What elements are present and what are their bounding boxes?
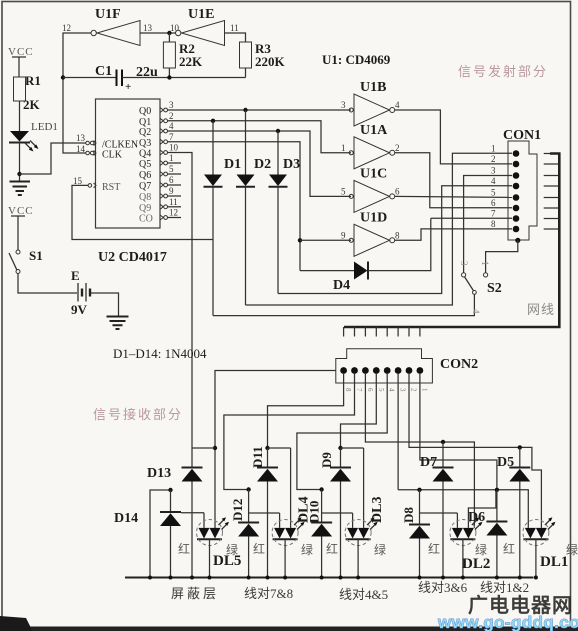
pin Q9 (11)	[139, 197, 181, 214]
svg-text:1: 1	[169, 153, 174, 163]
CON1 pin 3 dot	[513, 172, 520, 179]
junction dot on common bus	[518, 576, 522, 580]
svg-text:屏蔽层: 屏蔽层	[171, 586, 219, 601]
inverter U1D	[349, 224, 395, 256]
cable conductor tick above CON2	[408, 327, 410, 337]
svg-text:D6: D6	[468, 510, 485, 525]
svg-text:2: 2	[410, 388, 418, 392]
CON1 pin 5 cable tick	[544, 197, 560, 199]
svg-text:D13: D13	[147, 466, 171, 481]
svg-text:4: 4	[388, 388, 396, 392]
svg-text:4: 4	[169, 121, 174, 131]
connector CON2 body	[336, 349, 433, 383]
CON1 pin 4 dot	[513, 183, 520, 190]
wire D14 loop left	[150, 490, 171, 578]
wire D9 branch to DL3 right	[341, 448, 364, 528]
wire U1B output to CON1 pin2	[395, 110, 512, 164]
wire D10 to DL3 left	[322, 513, 353, 528]
svg-text:DL2: DL2	[462, 556, 490, 572]
svg-text:D5: D5	[497, 455, 514, 470]
junction dot on common bus	[441, 576, 445, 580]
inverter U1B	[349, 94, 395, 126]
svg-text:DL5: DL5	[213, 553, 241, 569]
CON2 pin 7 dot	[351, 367, 358, 374]
junction dot on common bus	[320, 576, 324, 580]
junction dot R2 top	[167, 31, 171, 35]
CON1 pin 7 dot	[513, 215, 520, 222]
cable conductor tick above CON2	[354, 327, 356, 337]
svg-text:6: 6	[169, 175, 174, 185]
wire CON2 shield to DL5 group	[215, 371, 336, 531]
junction dot on common bus	[266, 576, 270, 580]
wire D3 riser to CON1 pin4	[278, 186, 512, 294]
svg-text:2: 2	[395, 143, 400, 153]
svg-text:Q0: Q0	[139, 106, 151, 117]
svg-text:5: 5	[341, 186, 346, 196]
svg-text:RST: RST	[102, 182, 120, 193]
pin Q2 (4)	[139, 121, 174, 138]
inverter U1C	[349, 180, 395, 212]
CON1 pin 2 cable tick	[544, 163, 560, 165]
svg-text:10: 10	[170, 23, 180, 33]
svg-text:3: 3	[491, 166, 496, 176]
svg-text:U1E: U1E	[188, 7, 214, 22]
junction dot Q3 column / U1D input	[298, 238, 302, 242]
pin Q3 (7)	[139, 132, 174, 149]
svg-text:绿: 绿	[374, 542, 386, 557]
junction dot shield branch	[213, 446, 217, 450]
wire CON2 pin1 to DL1 row	[420, 373, 497, 490]
wire RST routing under U2	[72, 185, 213, 239]
junction dot on common bus	[247, 576, 251, 580]
svg-text:Q7: Q7	[139, 181, 151, 192]
CON1 shield pin dot	[515, 238, 520, 243]
junction dot D12 top	[246, 487, 250, 491]
junction dot on common bus	[356, 576, 360, 580]
VCC rail 1	[8, 46, 34, 77]
wire CON2 pin3 to DL2 row	[397, 373, 399, 490]
svg-text:D2: D2	[254, 157, 271, 172]
svg-text:3: 3	[459, 261, 469, 266]
junction dot C1 left / U1F output column	[61, 75, 65, 79]
svg-text:红: 红	[178, 541, 190, 556]
wire Q2 row to U1C input	[168, 131, 352, 196]
resistor R1	[14, 77, 26, 101]
svg-text:U1: CD4069: U1: CD4069	[322, 52, 391, 67]
svg-text:Q2: Q2	[139, 127, 151, 138]
svg-text:CON1: CON1	[503, 128, 541, 143]
pin Q6 (5)	[139, 164, 181, 181]
wire D1 row to S2 pole	[213, 295, 474, 316]
svg-text:红: 红	[326, 541, 338, 556]
wire C1 left	[63, 77, 116, 79]
junction dot LED1/ground	[17, 172, 21, 176]
svg-text:Q4: Q4	[139, 149, 151, 160]
svg-text:CON2: CON2	[440, 357, 478, 372]
svg-text:U1B: U1B	[360, 80, 386, 95]
svg-text:D11: D11	[250, 446, 265, 468]
CON1 pin 8 cable tick	[544, 228, 560, 230]
wire D12 to DL4 left	[249, 513, 280, 528]
svg-text:11: 11	[230, 23, 239, 33]
svg-text:R1: R1	[25, 73, 41, 88]
cable conductor tick above CON2	[343, 327, 345, 337]
wire U1E input to R3	[225, 33, 246, 42]
svg-text:线对3&6: 线对3&6	[418, 580, 468, 595]
svg-text:S1: S1	[29, 248, 43, 263]
svg-text:12: 12	[62, 23, 71, 33]
diode D6	[486, 490, 507, 578]
svg-text:4: 4	[395, 100, 400, 110]
svg-text:15: 15	[73, 176, 83, 186]
CON2 pin 4 dot	[384, 367, 391, 374]
junction dot D8 top	[417, 488, 421, 492]
CON1 pin 6 dot	[513, 205, 520, 212]
junction dot on common bus	[208, 576, 212, 580]
svg-text:LED1: LED1	[31, 121, 58, 133]
svg-text:1: 1	[420, 388, 428, 392]
junction dot on common bus	[534, 576, 538, 580]
cable conductor tick above CON2	[397, 327, 399, 337]
svg-text:DL3: DL3	[370, 497, 385, 523]
junction dot on common bus	[148, 576, 152, 580]
CON2 pin 8 dot	[340, 367, 347, 374]
dual LED DL3	[345, 517, 378, 577]
wire U1F output to CLK column	[63, 33, 91, 153]
svg-text:2: 2	[491, 154, 496, 164]
svg-text:网线: 网线	[527, 302, 555, 317]
svg-text:D14: D14	[114, 511, 138, 526]
inverter U1F	[91, 21, 140, 46]
bottom border bar	[0, 627, 578, 631]
ground symbol 2	[107, 317, 129, 330]
diode D12	[238, 490, 259, 578]
svg-text:1: 1	[480, 261, 490, 266]
junction dot on common bus	[190, 576, 194, 580]
wire D11 branch to DL4 right	[268, 448, 291, 528]
wire battery to ground 2	[91, 293, 119, 316]
svg-text:Q8: Q8	[139, 192, 151, 203]
diode D5	[509, 447, 530, 577]
svg-text:VCC: VCC	[8, 46, 34, 58]
junction dot on common bus	[418, 576, 422, 580]
wire LED1 to ground node	[19, 143, 21, 182]
svg-text:7: 7	[355, 388, 363, 392]
svg-text:12: 12	[169, 208, 178, 218]
junction dot on common bus	[461, 576, 465, 580]
wire CON2 pin5 to D9	[341, 373, 377, 448]
svg-text:线对4&5: 线对4&5	[339, 587, 388, 602]
pin Q1 (2)	[139, 111, 174, 128]
CON2 pin 5 dot	[373, 367, 380, 374]
network cable line	[344, 154, 559, 328]
diode D7	[433, 442, 454, 578]
junction dot Q0/D2	[243, 108, 247, 112]
svg-text:红: 红	[428, 541, 440, 556]
wire Q1 row to U1A input	[168, 121, 352, 153]
wire R1 to LED1	[19, 101, 21, 131]
svg-text:U1D: U1D	[360, 210, 387, 225]
CON1 pin 1 dot	[513, 150, 520, 157]
ground symbol 1	[10, 182, 31, 196]
wire U1F input to U1E output	[140, 32, 176, 34]
wire ground node to /CLKEN pin13	[20, 143, 86, 174]
CON1 pin 4 cable tick	[544, 185, 560, 187]
CON2 pin 6 dot	[362, 367, 369, 374]
junction dot D10 top	[319, 487, 323, 491]
wire U1C output to CON1 pin5	[395, 196, 512, 197]
wire CON2 pin7 to D12	[224, 373, 355, 490]
svg-text:U1A: U1A	[360, 123, 388, 138]
wire VCC2 to S1	[11, 216, 25, 250]
junction dot D11 branch	[265, 446, 269, 450]
dual LED DL4	[272, 517, 305, 577]
cable conductor tick above CON2	[386, 327, 388, 337]
svg-text:3: 3	[399, 388, 407, 392]
svg-text:10: 10	[169, 143, 179, 153]
svg-text:D3: D3	[283, 157, 300, 172]
svg-text:D10: D10	[307, 501, 322, 523]
svg-text:5: 5	[377, 388, 385, 392]
svg-text:9: 9	[341, 230, 346, 240]
cable conductor tick above CON2	[364, 327, 366, 337]
CON1 pin 5 dot	[513, 194, 520, 201]
pin RST (15)	[73, 176, 120, 193]
cable conductor tick above CON2	[375, 327, 377, 337]
svg-text:D8: D8	[401, 507, 416, 523]
dual LED DL5	[197, 517, 230, 577]
svg-text:7: 7	[169, 132, 174, 142]
wire U1A output to CON1 pin6	[395, 153, 512, 208]
wire D14 to DL5 left	[181, 513, 204, 528]
cable conductor tick above CON2	[419, 327, 421, 337]
pin CO (12)	[139, 208, 181, 225]
wire CON1 shield to S2 contact	[486, 240, 518, 272]
CON2 pin 1 dot	[417, 367, 424, 374]
diode D14	[160, 490, 181, 578]
junction dot on common bus	[169, 576, 173, 580]
wire shield branch to D13 column	[192, 447, 215, 449]
wire C1 right to R2/R3 bottoms	[122, 68, 246, 78]
svg-text:2K: 2K	[23, 97, 41, 112]
svg-text:13: 13	[76, 133, 86, 143]
svg-text:红: 红	[253, 541, 265, 556]
junction dot Q2/D3	[276, 129, 280, 133]
svg-text:VCC: VCC	[8, 205, 34, 217]
svg-text:3: 3	[341, 100, 346, 110]
svg-text:6: 6	[395, 186, 400, 196]
CON2 pin 2 dot	[406, 367, 413, 374]
wire CON2 pin8 to D11	[268, 373, 344, 448]
wire Q3 column to U1D input	[300, 239, 351, 241]
svg-text:U1C: U1C	[360, 166, 387, 181]
watermark site name	[468, 593, 572, 617]
svg-text:9V: 9V	[71, 302, 88, 317]
svg-text:22K: 22K	[179, 54, 203, 69]
svg-text:+: +	[125, 81, 131, 93]
wire Q3 row down	[168, 142, 301, 271]
svg-text:7: 7	[491, 209, 496, 219]
svg-text:D1–D14: 1N4004: D1–D14: 1N4004	[113, 346, 207, 361]
svg-text:信号接收部分: 信号接收部分	[93, 407, 183, 422]
svg-text:U1F: U1F	[95, 7, 121, 22]
diode D10	[311, 490, 332, 578]
wire CON1 pin3 to S2	[464, 176, 512, 273]
svg-text:线对1&2: 线对1&2	[480, 580, 529, 595]
inverter U1E	[176, 21, 225, 46]
junction dot on common bus	[283, 576, 287, 580]
CON2 pin 3 dot	[395, 367, 402, 374]
svg-text:3: 3	[169, 100, 174, 110]
diode D9	[330, 448, 351, 578]
svg-text:D9: D9	[319, 452, 334, 468]
capacitor C1	[117, 70, 132, 94]
wire CON2 pin2 to DL1 right	[409, 373, 541, 528]
CON1 pin 6 cable tick	[544, 207, 560, 209]
svg-text:2: 2	[169, 111, 174, 121]
svg-text:14: 14	[76, 144, 86, 154]
junction dot on common bus	[339, 576, 343, 580]
svg-text:1: 1	[341, 143, 346, 153]
diode D11	[257, 448, 278, 578]
diode D13	[182, 448, 203, 578]
pin /CLKEN (13)	[76, 133, 138, 151]
svg-text:8: 8	[395, 230, 400, 240]
wire DL2 row	[398, 490, 496, 528]
pin Q8 (9)	[139, 186, 181, 203]
dual LED DL1	[523, 517, 556, 577]
svg-text:D4: D4	[333, 278, 350, 293]
CON1 pin 7 cable tick	[544, 218, 560, 220]
wire CON2 pin6 to DL2 right	[365, 373, 474, 528]
wire Q4 column (down to receive section)	[168, 153, 193, 449]
pin Q4 (10)	[139, 143, 179, 160]
diode D8	[409, 490, 430, 578]
svg-text:绿: 绿	[301, 542, 313, 557]
wire CON2 pin4 to D10	[297, 373, 387, 490]
svg-text:9: 9	[169, 186, 174, 196]
CON1 pin 8 dot	[513, 226, 520, 233]
junction dot D14 top	[168, 488, 172, 492]
svg-text:红: 红	[503, 541, 515, 556]
svg-text:CO: CO	[139, 214, 153, 225]
wire U1D output to CON1 pin8	[395, 229, 512, 240]
wire D4 riser to CON1 pin7	[431, 217, 512, 219]
svg-text:8: 8	[491, 219, 496, 229]
connector CON1 body	[508, 141, 537, 240]
svg-text:Q9: Q9	[139, 203, 151, 214]
pin Q7 (6)	[139, 175, 181, 192]
svg-text:线对7&8: 线对7&8	[244, 586, 293, 601]
svg-text:绿: 绿	[475, 542, 487, 557]
svg-text:www.go-gddq.com: www.go-gddq.com	[437, 613, 578, 631]
svg-text:U2 CD4017: U2 CD4017	[98, 250, 167, 265]
switch S1	[9, 250, 20, 274]
svg-text:S2: S2	[487, 281, 502, 296]
svg-text:DL1: DL1	[540, 554, 568, 570]
wire Q0 row to U1B input	[168, 109, 352, 111]
pin Q5 (1)	[139, 153, 181, 170]
battery E 9V	[78, 283, 90, 302]
svg-text:5: 5	[169, 164, 174, 174]
junction dot Q1/D1	[211, 119, 215, 123]
svg-text:6: 6	[366, 388, 374, 392]
CON1 pin 1 cable tick	[544, 153, 560, 155]
wire S1 to battery	[18, 274, 77, 294]
svg-text:1: 1	[491, 144, 496, 154]
diode D4	[300, 218, 431, 279]
bottom-left ink blob	[0, 616, 32, 631]
wire D2 riser to CON1 pin1	[246, 153, 513, 305]
dual LED DL2	[450, 517, 483, 577]
CON1 pin 3 cable tick	[544, 175, 560, 177]
common bus	[125, 577, 534, 579]
switch S2	[462, 273, 488, 295]
svg-text:D7: D7	[420, 455, 437, 470]
svg-text:4: 4	[491, 176, 496, 186]
svg-text:Q6: Q6	[139, 170, 151, 181]
CON1 pin 2 dot	[513, 161, 520, 168]
svg-text:6: 6	[491, 198, 496, 208]
resistor R2	[163, 42, 175, 68]
svg-text:220K: 220K	[255, 54, 286, 69]
svg-text:信号发射部分: 信号发射部分	[458, 64, 548, 79]
svg-text:D12: D12	[230, 499, 245, 521]
svg-text:4: 4	[471, 309, 481, 314]
diode D1	[204, 121, 223, 316]
LED1 emission arrows	[25, 141, 37, 151]
junction dot D5 feed	[518, 445, 522, 449]
svg-text:5: 5	[491, 188, 496, 198]
wire R2 stub top	[168, 33, 170, 42]
junction dot on common bus	[495, 576, 499, 580]
svg-text:C1: C1	[95, 64, 112, 79]
inverter U1A	[349, 137, 395, 169]
LED LED1	[9, 131, 39, 152]
svg-text:11: 11	[169, 197, 178, 207]
resistor R3	[240, 42, 252, 68]
svg-text:8: 8	[344, 388, 352, 392]
diode D2	[236, 110, 255, 305]
wire DL1 row	[497, 490, 528, 528]
svg-text:13: 13	[143, 23, 153, 33]
wire VCC1 to R1	[12, 57, 26, 77]
junction dot R2 bottom	[167, 75, 171, 79]
junction dot D9 branch	[338, 446, 342, 450]
IC U2 box	[96, 99, 161, 228]
diode D3	[269, 131, 288, 294]
pin Q0 (3)	[139, 100, 174, 117]
svg-text:Q3: Q3	[139, 138, 151, 149]
junction dot D7 feed	[441, 440, 445, 444]
pin CLK (14)	[76, 144, 123, 161]
svg-text:CLK: CLK	[102, 150, 123, 161]
svg-text:Q5: Q5	[139, 159, 151, 170]
junction dot D6 top	[495, 488, 499, 492]
svg-text:D1: D1	[224, 157, 241, 172]
wire D8 to DL2 left	[420, 513, 458, 528]
svg-text:E: E	[71, 268, 80, 283]
